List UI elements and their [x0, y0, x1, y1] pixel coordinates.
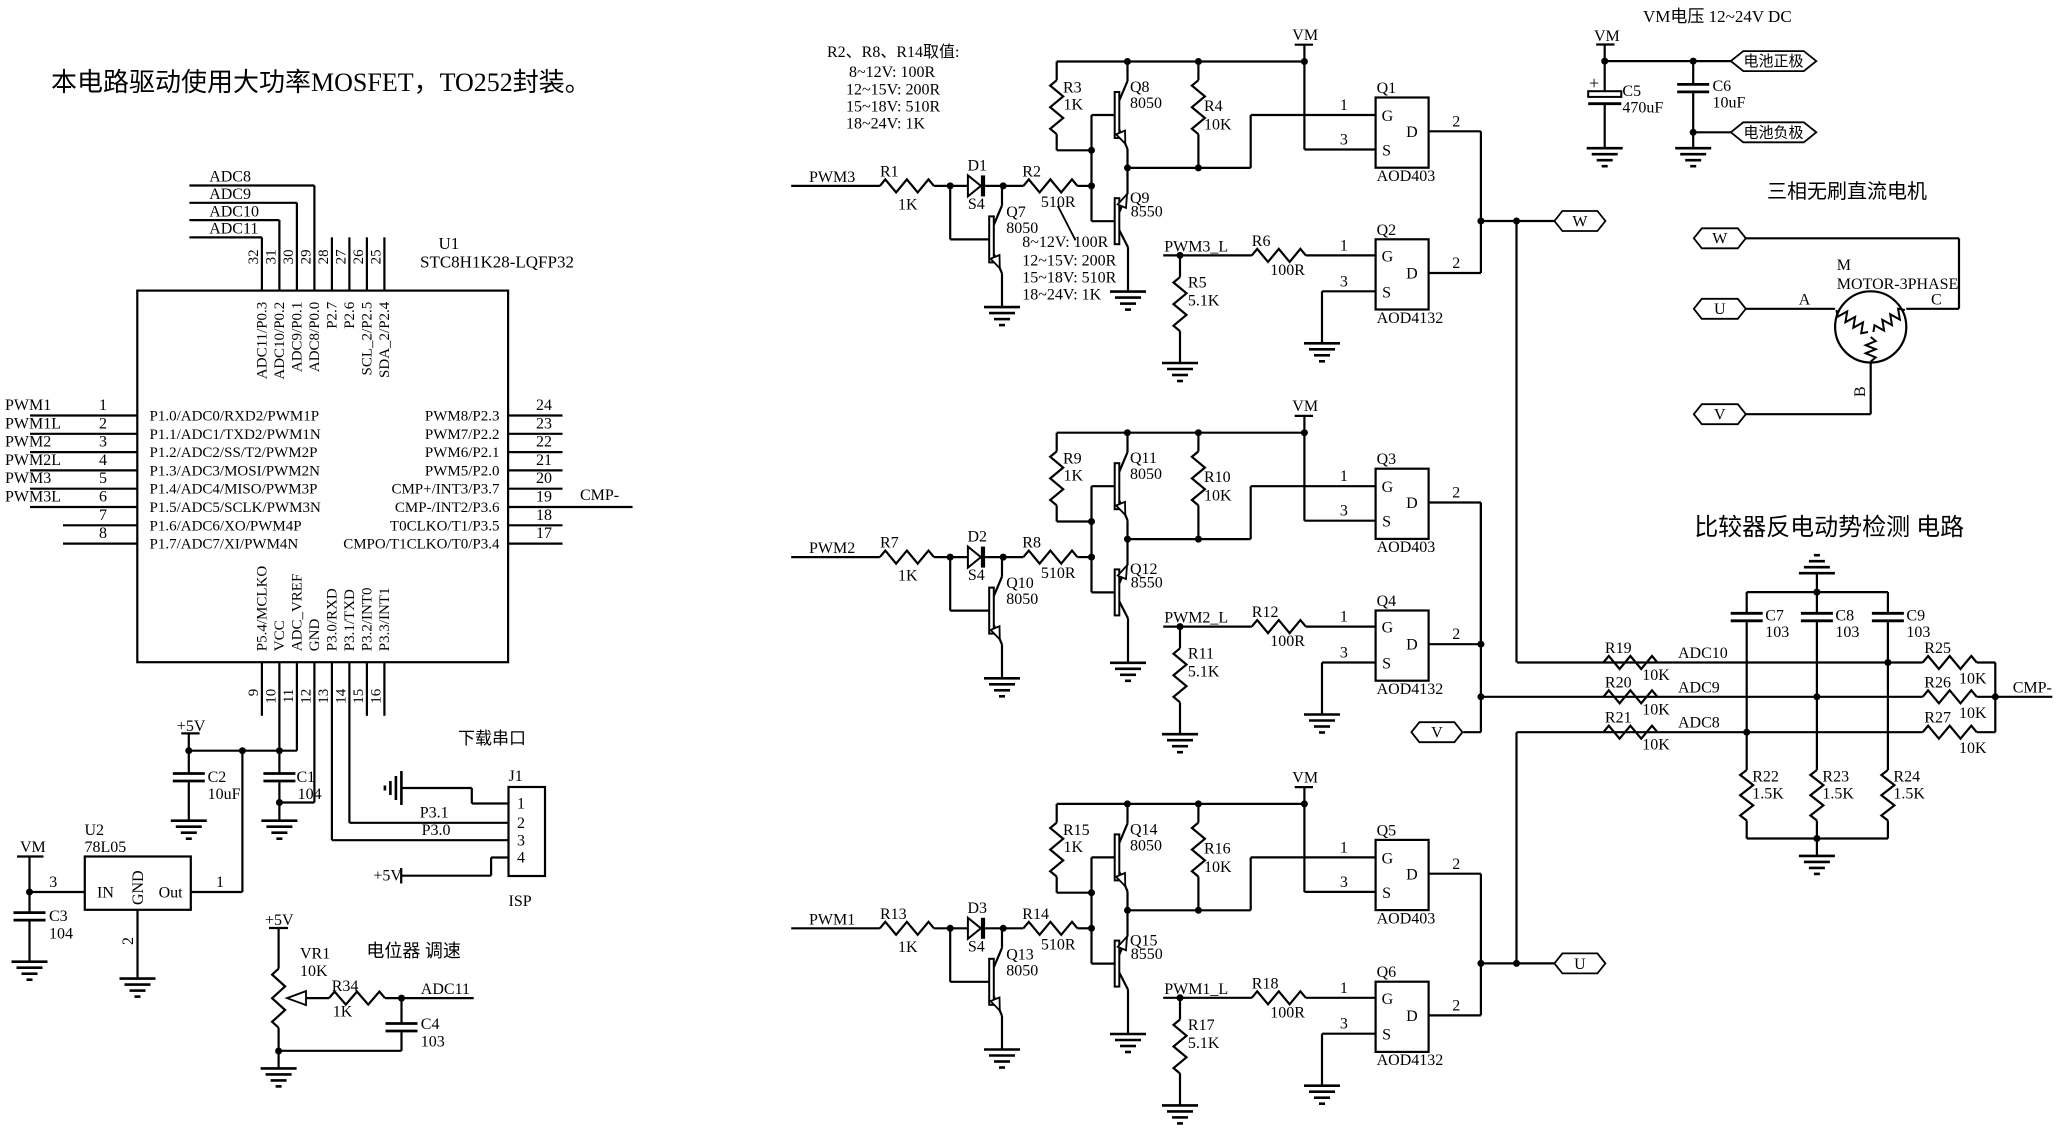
svg-text:100R: 100R [1270, 1004, 1305, 1021]
svg-text:R1: R1 [880, 163, 899, 180]
svg-text:510R: 510R [1041, 936, 1076, 953]
svg-text:P1.3/ADC3/MOSI/PWM2N: P1.3/ADC3/MOSI/PWM2N [150, 463, 321, 479]
svg-text:PWM1: PWM1 [5, 397, 51, 414]
svg-text:10K: 10K [1959, 740, 1987, 757]
svg-text:10K: 10K [1959, 705, 1987, 722]
svg-text:Q1: Q1 [1377, 80, 1397, 97]
svg-text:5.1K: 5.1K [1188, 292, 1220, 309]
svg-text:103: 103 [1835, 624, 1859, 641]
svg-text:10K: 10K [1204, 859, 1232, 876]
svg-text:PWM3: PWM3 [5, 470, 51, 487]
svg-text:15~18V: 510R: 15~18V: 510R [1022, 270, 1116, 287]
svg-text:P3.3/INT1: P3.3/INT1 [377, 587, 393, 651]
svg-text:10K: 10K [300, 963, 328, 980]
svg-text:比较器反电动势检测 电路: 比较器反电动势检测 电路 [1694, 514, 1964, 541]
svg-text:下载串口: 下载串口 [458, 729, 526, 748]
svg-text:PWM3L: PWM3L [5, 489, 61, 506]
svg-text:5: 5 [99, 470, 107, 487]
svg-text:D: D [1406, 637, 1418, 654]
svg-text:12~15V: 200R: 12~15V: 200R [1022, 252, 1116, 269]
svg-text:6: 6 [99, 489, 107, 506]
svg-text:D3: D3 [968, 900, 988, 917]
svg-text:B: B [1852, 386, 1869, 397]
svg-text:100R: 100R [1270, 262, 1305, 279]
svg-text:1: 1 [1340, 980, 1348, 997]
svg-text:2: 2 [120, 937, 137, 945]
svg-text:CMP-: CMP- [2013, 679, 2052, 696]
svg-text:10K: 10K [1642, 667, 1670, 684]
svg-text:R3: R3 [1063, 80, 1082, 97]
svg-text:29: 29 [299, 249, 315, 264]
svg-text:510R: 510R [1041, 565, 1076, 582]
svg-text:U1: U1 [439, 234, 460, 253]
svg-text:CMP+/INT3/P3.7: CMP+/INT3/P3.7 [391, 482, 500, 498]
svg-text:R7: R7 [880, 535, 899, 552]
svg-text:MOTOR-3PHASE: MOTOR-3PHASE [1837, 276, 1959, 293]
svg-text:1: 1 [517, 796, 525, 813]
svg-text:D: D [1406, 1008, 1418, 1025]
svg-text:1.5K: 1.5K [1822, 786, 1854, 803]
svg-text:2: 2 [1452, 626, 1460, 643]
svg-text:PWM2_L: PWM2_L [1164, 610, 1228, 627]
svg-text:30: 30 [281, 249, 297, 264]
svg-text:1K: 1K [898, 196, 918, 213]
svg-text:1: 1 [1340, 97, 1348, 114]
svg-text:G: G [1382, 850, 1394, 867]
svg-text:+: + [1589, 73, 1599, 93]
svg-text:VM: VM [20, 839, 46, 856]
svg-text:8050: 8050 [1006, 591, 1038, 608]
svg-text:Q13: Q13 [1006, 946, 1034, 963]
svg-text:C6: C6 [1713, 78, 1732, 95]
svg-text:电池正极: 电池正极 [1743, 53, 1803, 70]
svg-text:P3.1/TXD: P3.1/TXD [342, 589, 358, 651]
svg-text:VM: VM [1292, 398, 1318, 415]
svg-text:G: G [1382, 248, 1394, 265]
svg-text:R9: R9 [1063, 451, 1082, 468]
svg-text:R17: R17 [1188, 1017, 1215, 1034]
svg-text:Q3: Q3 [1377, 451, 1397, 468]
svg-text:C2: C2 [208, 769, 227, 786]
svg-text:U: U [1574, 956, 1586, 973]
svg-text:2: 2 [1452, 485, 1460, 502]
svg-text:2: 2 [1452, 856, 1460, 873]
svg-text:1.5K: 1.5K [1752, 786, 1784, 803]
svg-text:25: 25 [369, 249, 385, 264]
svg-text:C3: C3 [49, 908, 68, 925]
svg-text:1: 1 [1340, 237, 1348, 254]
svg-text:1: 1 [216, 874, 224, 891]
svg-text:PWM6/P2.1: PWM6/P2.1 [425, 445, 500, 461]
svg-text:20: 20 [536, 470, 552, 487]
svg-text:24: 24 [536, 397, 552, 414]
svg-text:C7: C7 [1765, 608, 1784, 625]
svg-text:3: 3 [49, 874, 57, 891]
svg-text:R6: R6 [1252, 233, 1271, 250]
svg-text:R14: R14 [1022, 906, 1049, 923]
svg-text:78L05: 78L05 [85, 839, 127, 856]
svg-text:CMP-/INT2/P3.6: CMP-/INT2/P3.6 [395, 500, 500, 516]
svg-text:PWM2L: PWM2L [5, 452, 61, 469]
svg-text:C8: C8 [1835, 608, 1854, 625]
svg-text:VR1: VR1 [300, 946, 330, 963]
svg-text:P1.7/ADC7/XI/PWM4N: P1.7/ADC7/XI/PWM4N [150, 537, 299, 553]
svg-text:U2: U2 [85, 822, 105, 839]
svg-text:S4: S4 [968, 196, 985, 213]
svg-text:VCC: VCC [272, 620, 288, 651]
svg-text:26: 26 [351, 249, 367, 265]
svg-text:ADC8/P0.0: ADC8/P0.0 [307, 302, 323, 372]
svg-text:PWM7/P2.2: PWM7/P2.2 [425, 427, 500, 443]
svg-text:4: 4 [99, 452, 107, 469]
svg-text:SDA_2/P2.4: SDA_2/P2.4 [377, 301, 393, 378]
svg-text:10K: 10K [1642, 737, 1670, 754]
svg-text:VM: VM [1292, 27, 1318, 44]
svg-text:R2: R2 [1022, 163, 1041, 180]
svg-text:1K: 1K [333, 1004, 353, 1021]
svg-text:VM: VM [1292, 769, 1318, 786]
svg-text:VM: VM [1594, 28, 1620, 45]
svg-text:+5V: +5V [265, 912, 294, 929]
svg-text:R8: R8 [1022, 535, 1041, 552]
svg-text:7: 7 [99, 507, 107, 524]
svg-text:CMPO/T1CLKO/T0/P3.4: CMPO/T1CLKO/T0/P3.4 [343, 537, 500, 553]
svg-text:3: 3 [1340, 132, 1348, 149]
svg-text:R25: R25 [1924, 640, 1951, 657]
svg-text:10K: 10K [1959, 671, 1987, 688]
svg-text:U: U [1714, 301, 1726, 318]
svg-text:P3.0/RXD: P3.0/RXD [324, 588, 340, 651]
svg-text:P1.5/ADC5/SCLK/PWM3N: P1.5/ADC5/SCLK/PWM3N [150, 500, 321, 516]
svg-text:C5: C5 [1622, 83, 1641, 100]
svg-text:V: V [1714, 407, 1726, 424]
svg-text:2: 2 [1452, 997, 1460, 1014]
svg-text:103: 103 [1906, 624, 1930, 641]
svg-text:Q8: Q8 [1130, 79, 1150, 96]
svg-text:AOD4132: AOD4132 [1377, 310, 1444, 327]
svg-text:3: 3 [1340, 503, 1348, 520]
svg-text:103: 103 [1765, 624, 1789, 641]
svg-text:W: W [1572, 213, 1588, 230]
svg-text:18~24V: 1K: 18~24V: 1K [846, 116, 925, 133]
svg-text:11: 11 [281, 689, 297, 703]
svg-text:27: 27 [334, 249, 350, 265]
svg-text:ADC11: ADC11 [421, 981, 470, 998]
svg-text:19: 19 [536, 489, 552, 506]
svg-text:10K: 10K [1642, 701, 1670, 718]
svg-text:104: 104 [298, 786, 322, 803]
svg-text:R16: R16 [1204, 840, 1231, 857]
svg-text:1: 1 [99, 397, 107, 414]
svg-text:G: G [1382, 108, 1394, 125]
svg-text:三相无刷直流电机: 三相无刷直流电机 [1767, 180, 1927, 203]
svg-text:本电路驱动使用大功率MOSFET，TO252封装。: 本电路驱动使用大功率MOSFET，TO252封装。 [51, 68, 591, 97]
svg-text:C9: C9 [1906, 608, 1925, 625]
svg-text:P2.6: P2.6 [342, 301, 358, 329]
svg-text:T0CLKO/T1/P3.5: T0CLKO/T1/P3.5 [390, 518, 500, 534]
svg-text:D: D [1406, 495, 1418, 512]
svg-text:S: S [1382, 514, 1391, 531]
svg-text:1K: 1K [1064, 97, 1084, 114]
svg-text:GND: GND [307, 619, 323, 652]
svg-text:PWM1_L: PWM1_L [1164, 981, 1228, 998]
svg-text:31: 31 [264, 249, 280, 264]
svg-text:R5: R5 [1188, 274, 1207, 291]
svg-text:R15: R15 [1063, 822, 1090, 839]
svg-text:GND: GND [130, 870, 147, 905]
svg-text:3: 3 [1340, 645, 1348, 662]
svg-text:G: G [1382, 991, 1394, 1008]
svg-text:D: D [1406, 266, 1418, 283]
svg-text:ISP: ISP [509, 893, 532, 910]
svg-text:R27: R27 [1924, 710, 1951, 727]
svg-text:18: 18 [536, 507, 552, 524]
svg-text:PWM5/P2.0: PWM5/P2.0 [425, 463, 500, 479]
svg-text:ADC10: ADC10 [209, 203, 259, 220]
svg-text:电位器 调速: 电位器 调速 [366, 941, 461, 961]
svg-text:1: 1 [1340, 839, 1348, 856]
svg-text:P1.4/ADC4/MISO/PWM3P: P1.4/ADC4/MISO/PWM3P [150, 482, 318, 498]
svg-text:8050: 8050 [1130, 837, 1162, 854]
svg-text:S4: S4 [968, 567, 985, 584]
svg-text:8050: 8050 [1130, 466, 1162, 483]
svg-text:8~12V: 100R: 8~12V: 100R [849, 64, 935, 81]
svg-text:2: 2 [1452, 255, 1460, 272]
svg-text:R26: R26 [1924, 674, 1951, 691]
svg-text:ADC_VREF: ADC_VREF [289, 574, 305, 652]
svg-text:1: 1 [1340, 609, 1348, 626]
svg-text:8550: 8550 [1131, 946, 1163, 963]
svg-text:12: 12 [299, 689, 315, 704]
svg-text:8050: 8050 [1006, 962, 1038, 979]
svg-text:3: 3 [1340, 874, 1348, 891]
svg-text:16: 16 [369, 688, 385, 704]
svg-text:Q4: Q4 [1377, 593, 1397, 610]
svg-text:10K: 10K [1204, 488, 1232, 505]
svg-text:AOD403: AOD403 [1377, 168, 1436, 185]
svg-text:PWM2: PWM2 [809, 540, 855, 557]
svg-text:STC8H1K28-LQFP32: STC8H1K28-LQFP32 [420, 253, 574, 272]
svg-text:1K: 1K [898, 939, 918, 956]
svg-text:V: V [1431, 725, 1443, 742]
svg-text:D: D [1406, 866, 1418, 883]
svg-text:8: 8 [99, 525, 107, 542]
svg-text:5.1K: 5.1K [1188, 1035, 1220, 1052]
svg-text:R13: R13 [880, 906, 907, 923]
svg-text:32: 32 [246, 249, 262, 264]
svg-text:ADC9: ADC9 [1678, 679, 1720, 696]
svg-text:28: 28 [316, 249, 332, 264]
svg-text:PWM2: PWM2 [5, 434, 51, 451]
svg-text:VM电压 12~24V DC: VM电压 12~24V DC [1643, 7, 1792, 26]
svg-text:AOD403: AOD403 [1377, 910, 1436, 927]
svg-text:P2.7: P2.7 [324, 301, 340, 329]
svg-text:J1: J1 [509, 768, 523, 785]
svg-text:2: 2 [99, 415, 107, 432]
svg-text:10K: 10K [1204, 117, 1232, 134]
svg-text:Q5: Q5 [1377, 822, 1397, 839]
svg-text:ADC10/P0.2: ADC10/P0.2 [272, 302, 288, 380]
svg-text:S4: S4 [968, 938, 985, 955]
svg-text:Q2: Q2 [1377, 222, 1397, 239]
svg-text:104: 104 [49, 926, 73, 943]
svg-text:AOD403: AOD403 [1377, 539, 1436, 556]
svg-text:12~15V: 200R: 12~15V: 200R [846, 82, 940, 99]
svg-text:R21: R21 [1605, 710, 1632, 727]
svg-text:4: 4 [517, 850, 525, 867]
svg-text:ADC11/P0.3: ADC11/P0.3 [254, 302, 270, 379]
svg-text:P1.2/ADC2/SS/T2/PWM2P: P1.2/ADC2/SS/T2/PWM2P [150, 445, 318, 461]
svg-text:1K: 1K [1064, 839, 1084, 856]
svg-text:22: 22 [536, 434, 552, 451]
svg-text:M: M [1837, 257, 1851, 274]
svg-text:S: S [1382, 656, 1391, 673]
svg-text:10uF: 10uF [208, 786, 241, 803]
svg-text:+5V: +5V [373, 868, 402, 885]
svg-text:R12: R12 [1252, 604, 1279, 621]
svg-text:P3.0: P3.0 [422, 822, 451, 839]
svg-text:S: S [1382, 1027, 1391, 1044]
svg-text:103: 103 [421, 1034, 445, 1051]
svg-text:3: 3 [1340, 273, 1348, 290]
svg-text:R24: R24 [1893, 769, 1920, 786]
svg-text:IN: IN [97, 885, 114, 902]
svg-text:3: 3 [99, 434, 107, 451]
svg-text:10uF: 10uF [1713, 95, 1746, 112]
svg-text:ADC10: ADC10 [1678, 645, 1728, 662]
svg-text:3: 3 [1340, 1016, 1348, 1033]
svg-text:15: 15 [351, 689, 367, 704]
svg-text:ADC9: ADC9 [209, 186, 251, 203]
svg-text:Q7: Q7 [1006, 204, 1026, 221]
svg-text:10: 10 [264, 689, 280, 704]
svg-text:R23: R23 [1822, 769, 1849, 786]
svg-text:SCL_2/P2.5: SCL_2/P2.5 [359, 302, 375, 376]
svg-text:1: 1 [1340, 468, 1348, 485]
svg-text:2: 2 [517, 815, 525, 832]
svg-text:C4: C4 [421, 1016, 440, 1033]
svg-text:D1: D1 [968, 157, 988, 174]
svg-text:P1.6/ADC6/XO/PWM4P: P1.6/ADC6/XO/PWM4P [150, 518, 302, 534]
svg-text:W: W [1712, 231, 1728, 248]
svg-text:P1.1/ADC1/TXD2/PWM1N: P1.1/ADC1/TXD2/PWM1N [150, 427, 321, 443]
svg-text:23: 23 [536, 415, 552, 432]
svg-text:PWM1L: PWM1L [5, 415, 61, 432]
svg-text:C: C [1931, 292, 1942, 309]
svg-text:G: G [1382, 479, 1394, 496]
svg-text:D2: D2 [968, 529, 988, 546]
svg-text:21: 21 [536, 452, 552, 469]
svg-text:PWM3_L: PWM3_L [1164, 238, 1228, 255]
svg-text:ADC11: ADC11 [209, 221, 258, 238]
svg-text:R22: R22 [1752, 769, 1779, 786]
svg-text:P3.1: P3.1 [420, 805, 449, 822]
svg-text:8050: 8050 [1130, 95, 1162, 112]
svg-text:D: D [1406, 124, 1418, 141]
svg-text:9: 9 [246, 689, 262, 697]
svg-text:Q14: Q14 [1130, 821, 1158, 838]
svg-text:G: G [1382, 620, 1394, 637]
svg-text:AOD4132: AOD4132 [1377, 681, 1444, 698]
svg-text:100R: 100R [1270, 633, 1305, 650]
svg-text:PWM8/P2.3: PWM8/P2.3 [425, 409, 500, 425]
svg-text:R20: R20 [1605, 674, 1632, 691]
svg-text:R2、R8、R14取值:: R2、R8、R14取值: [827, 43, 959, 61]
svg-text:R19: R19 [1605, 640, 1632, 657]
svg-text:CMP-: CMP- [580, 487, 619, 504]
svg-text:Q10: Q10 [1006, 575, 1034, 592]
svg-text:R34: R34 [332, 978, 359, 995]
svg-text:S: S [1382, 143, 1391, 160]
svg-text:P5.4/MCLKO: P5.4/MCLKO [254, 566, 270, 652]
svg-text:3: 3 [517, 832, 525, 849]
svg-text:S: S [1382, 284, 1391, 301]
svg-text:1K: 1K [1064, 468, 1084, 485]
svg-text:17: 17 [536, 525, 552, 542]
svg-text:AOD4132: AOD4132 [1377, 1052, 1444, 1069]
svg-text:C1: C1 [297, 769, 316, 786]
svg-text:Q11: Q11 [1130, 450, 1157, 467]
svg-text:15~18V: 510R: 15~18V: 510R [846, 99, 940, 116]
svg-text:8~12V: 100R: 8~12V: 100R [1022, 234, 1108, 251]
svg-text:Q6: Q6 [1377, 964, 1397, 981]
svg-text:R18: R18 [1252, 975, 1279, 992]
svg-text:13: 13 [316, 689, 332, 704]
svg-text:Out: Out [159, 885, 184, 902]
svg-text:8550: 8550 [1131, 203, 1163, 220]
svg-text:470uF: 470uF [1622, 100, 1663, 117]
svg-text:R4: R4 [1204, 98, 1223, 115]
svg-text:5.1K: 5.1K [1188, 664, 1220, 681]
svg-text:P1.0/ADC0/RXD2/PWM1P: P1.0/ADC0/RXD2/PWM1P [150, 409, 320, 425]
svg-text:1.5K: 1.5K [1893, 786, 1925, 803]
svg-text:18~24V: 1K: 18~24V: 1K [1022, 287, 1101, 304]
svg-text:8550: 8550 [1131, 575, 1163, 592]
svg-text:P3.2/INT0: P3.2/INT0 [359, 587, 375, 651]
svg-text:ADC8: ADC8 [209, 169, 251, 186]
svg-text:14: 14 [334, 688, 350, 704]
svg-text:R10: R10 [1204, 469, 1231, 486]
svg-text:1K: 1K [898, 568, 918, 585]
svg-text:R11: R11 [1188, 646, 1214, 663]
svg-text:ADC9/P0.1: ADC9/P0.1 [289, 302, 305, 372]
svg-text:ADC8: ADC8 [1678, 715, 1720, 732]
svg-text:2: 2 [1452, 114, 1460, 131]
svg-text:A: A [1799, 292, 1811, 309]
svg-text:PWM1: PWM1 [809, 911, 855, 928]
svg-text:S: S [1382, 885, 1391, 902]
svg-text:PWM3: PWM3 [809, 169, 855, 186]
svg-text:电池负极: 电池负极 [1743, 124, 1803, 141]
